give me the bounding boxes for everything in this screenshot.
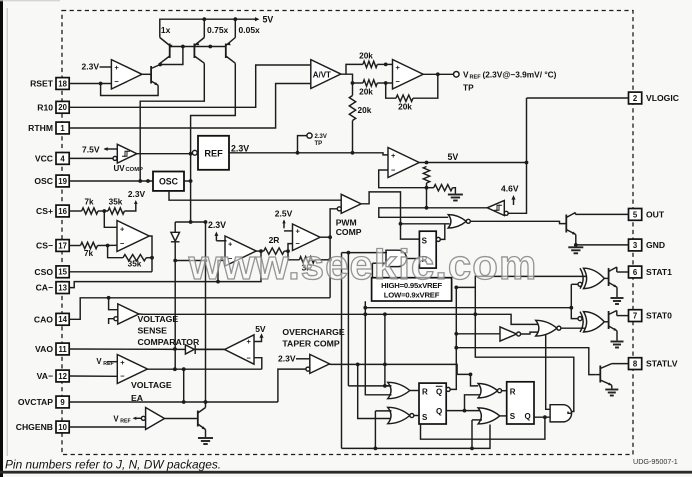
svg-text:+: +	[114, 63, 119, 72]
junction q rail	[463, 409, 467, 413]
wire 7k to node	[98, 210, 108, 212]
wire PWM minus	[330, 209, 337, 298]
resistor divider lower	[434, 185, 453, 191]
latch status 1	[419, 383, 450, 424]
gate XOR STAT1	[578, 268, 604, 288]
svg-text:R: R	[422, 388, 428, 397]
wire CAO rail	[69, 298, 330, 320]
wire EA to OVCTAP	[183, 369, 185, 402]
svg-text:VOLTAGE: VOLTAGE	[138, 314, 179, 324]
junction Q4 collector node	[158, 63, 162, 67]
wire VAO pin	[69, 348, 185, 350]
svg-text:20k: 20k	[359, 87, 373, 97]
wire mirror base rail	[170, 46, 226, 48]
svg-text:−: −	[391, 165, 396, 174]
wire AND in2 riser	[371, 263, 373, 278]
svg-text:7: 7	[633, 312, 637, 321]
junction base rail 2	[208, 45, 212, 49]
svg-text:5V: 5V	[448, 152, 459, 162]
pin 6 STAT1	[629, 266, 673, 278]
gate AND status	[550, 405, 571, 422]
wire stat1 top rail	[475, 276, 587, 287]
label 5V window	[255, 324, 266, 334]
junction EA-OVCTAP riser	[182, 367, 186, 371]
wire VLOGIC	[527, 97, 629, 99]
svg-text:COMP: COMP	[126, 167, 144, 173]
pin 3 GND	[629, 239, 666, 251]
junction base rail	[181, 45, 185, 49]
junction divider node	[425, 186, 429, 190]
wire CS- to amp	[98, 244, 118, 246]
label 0.75x	[207, 25, 229, 35]
wire vs riser to or1	[365, 301, 391, 395]
wire RSET to U1-	[69, 83, 111, 85]
svg-text:17: 17	[58, 241, 67, 250]
wire res node	[426, 183, 428, 208]
resistor 7k CS-	[81, 242, 98, 258]
wire top 20k to amp+	[377, 63, 392, 65]
wire Qbar riser	[449, 287, 574, 411]
wire inverter input	[456, 333, 500, 335]
IC boundary (dashed)	[62, 11, 633, 455]
svg-text:S: S	[422, 413, 428, 422]
junction CS- node	[106, 244, 110, 248]
wire to gnd	[453, 188, 456, 194]
junction EA out tap	[173, 367, 177, 371]
svg-text:RSET: RSET	[30, 79, 54, 89]
transistor Q9 STATLV	[595, 364, 628, 389]
wire NOR out to Q6 base	[470, 221, 566, 223]
junction 2R node	[286, 249, 290, 253]
wire OSC block output	[184, 180, 191, 182]
junction buffer out	[328, 235, 332, 239]
label 2.3V CA	[208, 220, 226, 230]
wire node down to 3R	[288, 251, 299, 260]
junction Q5 collector	[204, 400, 208, 404]
svg-text:2.5V: 2.5V	[275, 209, 293, 219]
diode D2 VAO	[185, 345, 195, 354]
svg-text:2.3V: 2.3V	[82, 62, 100, 72]
wire or1 top in	[348, 385, 391, 387]
resistor 20k feedback	[396, 95, 413, 111]
svg-text:20k: 20k	[359, 50, 373, 60]
svg-text:3: 3	[633, 241, 638, 250]
junction VAO diode anode	[173, 347, 177, 351]
junction CAO comp tap	[107, 296, 111, 300]
svg-text:6: 6	[633, 268, 638, 277]
junction riser statlv	[454, 346, 458, 350]
wire OSC pin line	[69, 180, 153, 182]
resistor 20k lower	[359, 80, 377, 97]
comparator VOLTAGE SENSE	[114, 304, 139, 324]
svg-text:GND: GND	[646, 240, 665, 250]
svg-text:OUT: OUT	[646, 210, 665, 220]
wire clamp left lower	[174, 242, 176, 261]
svg-text:2.3V: 2.3V	[231, 143, 249, 153]
wire or latch2 bottom in	[472, 419, 482, 421]
junction CS+ node	[102, 209, 106, 213]
wire stat cross rail	[365, 307, 571, 309]
svg-text:V: V	[463, 70, 469, 80]
label 2.3V U1	[82, 62, 100, 72]
svg-text:2.3V: 2.3V	[278, 354, 296, 364]
wire taper - to OVCTAP	[278, 369, 306, 402]
svg-text:−: −	[120, 372, 125, 381]
svg-text:20k: 20k	[398, 101, 412, 111]
svg-text:5: 5	[633, 210, 638, 219]
wire CS+ node to amp	[104, 211, 117, 227]
junction x475 vs	[473, 312, 477, 316]
wire 5V out	[419, 162, 526, 164]
wire stat1 xor lower	[571, 283, 578, 285]
gate XOR STAT0	[578, 312, 604, 332]
svg-text:−: −	[247, 353, 252, 362]
svg-text:7k: 7k	[84, 249, 94, 258]
ground STATLV	[605, 390, 618, 396]
junction OSC left2	[146, 179, 150, 183]
ground STAT1	[611, 298, 624, 304]
svg-text:VAO: VAO	[35, 344, 53, 354]
svg-text:CS−: CS−	[36, 241, 53, 251]
inverter status	[500, 327, 521, 341]
wire or1 out	[410, 390, 419, 392]
transistor Q7 STAT1	[604, 267, 628, 297]
wire VREF feedback	[413, 74, 438, 98]
svg-text:CAO: CAO	[34, 314, 53, 324]
arrow 2.3V CS	[128, 189, 146, 204]
svg-text:Q: Q	[525, 412, 531, 421]
wire 2.3V CA to +	[216, 240, 226, 242]
wire CS- lead	[69, 245, 80, 247]
wire lower 20k to amp-	[377, 82, 392, 84]
arrow 5V window	[259, 333, 263, 338]
wire EA out rail	[147, 368, 261, 370]
svg-text:7k: 7k	[84, 198, 94, 207]
block window thresholds	[372, 278, 452, 301]
junction or1 riser	[383, 384, 387, 388]
svg-text:+: +	[396, 63, 401, 72]
svg-text:10: 10	[58, 423, 67, 432]
wire vs minus stub	[109, 319, 114, 324]
wire CA out lead	[256, 250, 264, 252]
wire A/VT out branches	[341, 74, 353, 95]
comparator UVCOMP	[113, 144, 137, 163]
junction CA- rail	[216, 280, 220, 284]
pin 12 VA&#8722;	[37, 370, 70, 382]
svg-text:2.3V: 2.3V	[128, 189, 146, 199]
svg-text:CA−: CA−	[36, 283, 53, 293]
pin 1 RTHM	[28, 122, 69, 134]
wire R10 to A/VT	[69, 65, 311, 107]
wire A/VT to top 20k	[346, 64, 363, 74]
wire or latch2 bottom riser	[471, 420, 473, 449]
resistor 20k vertical	[349, 96, 371, 121]
svg-text:www.seekic.com: www.seekic.com	[188, 241, 538, 288]
svg-text:−: −	[114, 77, 119, 86]
pin 11 VAO	[35, 343, 69, 355]
wire 2.3V TP stub	[298, 136, 307, 153]
junction bus top	[204, 220, 208, 224]
latch PWM S-R	[419, 231, 440, 268]
svg-text:OVERCHARGE: OVERCHARGE	[282, 327, 344, 337]
wire CAO to comparator	[109, 298, 118, 310]
svg-text:2: 2	[633, 94, 638, 103]
wire CHGENB pin	[69, 426, 145, 428]
arrow VREF chg	[133, 417, 137, 420]
label VOLTAGE EA	[131, 380, 172, 403]
wire statlv base rail	[456, 348, 595, 375]
wire 7.5V arrow	[105, 148, 118, 150]
wire bottom rail B	[342, 425, 491, 449]
svg-text:STATLV: STATLV	[646, 359, 678, 369]
svg-text:35k: 35k	[128, 259, 142, 268]
comparator OVERCHARGE TAPER	[306, 354, 330, 373]
op-amp U2 VREF buffer	[393, 60, 424, 90]
svg-text:+: +	[120, 358, 125, 367]
wire fb to -	[386, 83, 396, 98]
junction OVCTAP EA	[182, 400, 186, 404]
junction UVCOMP-REF node	[189, 152, 193, 156]
wire latch2 q to and	[534, 416, 550, 418]
test point 2.3V TP	[307, 133, 327, 147]
svg-text:STAT1: STAT1	[646, 267, 672, 277]
svg-text:8: 8	[633, 360, 638, 369]
svg-text:REF: REF	[470, 75, 482, 81]
svg-text:−: −	[396, 77, 401, 86]
junction 3R tap	[328, 258, 332, 262]
wire OVCTAP pin rail	[69, 401, 278, 403]
pin 5 OUT	[629, 209, 665, 221]
junction riser inv	[454, 332, 458, 336]
wire and out	[568, 412, 572, 414]
svg-text:19: 19	[58, 177, 67, 186]
wire q to nor top	[465, 395, 483, 411]
5V supply arrow	[255, 15, 273, 25]
svg-text:11: 11	[58, 345, 67, 354]
svg-text:VA−: VA−	[37, 371, 53, 381]
wire PWM out to latch S	[361, 192, 419, 239]
svg-text:5V: 5V	[263, 15, 274, 25]
junction cross rail right	[569, 306, 573, 310]
ground output stage	[568, 247, 583, 253]
junction 2.3V TP tap	[296, 151, 300, 155]
gate AND R driver	[386, 250, 406, 266]
svg-text:TAPER COMP: TAPER COMP	[282, 338, 339, 348]
pin 20 R10	[37, 101, 69, 113]
wire VCC to UVCOMP	[69, 157, 113, 159]
svg-text:9: 9	[60, 398, 65, 407]
pin 14 CAO	[34, 313, 69, 325]
label 2.3V REF out	[231, 143, 249, 153]
svg-text:+: +	[391, 151, 396, 160]
svg-text:0.05x: 0.05x	[239, 25, 261, 35]
wire UVCOMP output	[137, 153, 191, 155]
junction riser348 top	[347, 251, 351, 255]
svg-text:CSO: CSO	[34, 267, 53, 277]
svg-text:VLOGIC: VLOGIC	[646, 93, 679, 103]
svg-text:5V: 5V	[255, 324, 266, 334]
svg-text:V: V	[113, 414, 119, 423]
wire 20k vert to 2.3V	[352, 121, 354, 153]
label UVCOMP	[114, 164, 144, 173]
svg-text:CHGENB: CHGENB	[16, 422, 53, 432]
svg-text:4: 4	[60, 154, 65, 163]
wire GND pin	[576, 244, 629, 246]
label VREF CHGENB	[113, 414, 130, 424]
junction taper rail NOR2	[356, 363, 360, 367]
junction taper rail OR1	[383, 363, 387, 367]
wire vs step to NOR	[475, 314, 539, 324]
op-amp U4 ramp buffer	[293, 224, 321, 251]
wire AND in2	[372, 262, 387, 264]
junction clamp bottom	[173, 259, 177, 263]
svg-text:SENSE: SENSE	[138, 326, 168, 336]
svg-text:S: S	[510, 412, 516, 421]
junction VREF amp - input	[384, 81, 388, 85]
test point VREF	[454, 72, 460, 78]
wire taper to NOR2	[358, 364, 392, 418]
svg-text:+: +	[247, 337, 252, 346]
junction VREF amp + input	[384, 63, 388, 67]
wire logic bus x341	[341, 253, 343, 449]
label 2.3V taper	[278, 354, 296, 364]
svg-text:R10: R10	[37, 102, 53, 112]
junction nor2 bottom rail	[374, 447, 378, 451]
junction 5V vlogic	[525, 161, 529, 165]
wire clamp top	[175, 221, 205, 223]
wire VREF output	[423, 73, 453, 75]
svg-text:VOLTAGE: VOLTAGE	[131, 380, 172, 390]
scan left border bar	[0, 0, 60, 477]
wire clamp out	[379, 208, 487, 218]
junction vs riser	[363, 312, 367, 316]
gate NOR latch2 R	[478, 384, 501, 398]
wire Q2 collector to OSC node	[140, 63, 204, 181]
arrow 4.6V supply	[511, 195, 515, 205]
junction bottom rail 2	[470, 447, 474, 451]
resistor 20k top	[359, 50, 377, 67]
pin 16 CS+	[36, 205, 69, 217]
svg-text:13: 13	[58, 284, 67, 293]
junction 2.3V 20k tap	[351, 151, 355, 155]
wire CA minus stub	[218, 260, 225, 281]
wire nor2 top in	[375, 410, 391, 412]
wire AND in1	[342, 252, 388, 254]
wire CS fb to out	[146, 257, 152, 259]
bottom rule	[0, 471, 692, 474]
wire CS+ lead	[69, 210, 82, 212]
pin 8 STATLV	[629, 358, 678, 370]
junction CS out node	[150, 256, 154, 260]
wire buffer to Q5	[165, 418, 198, 420]
svg-text:15: 15	[58, 268, 67, 277]
wire 3R runout	[315, 259, 331, 261]
svg-text:CS+: CS+	[36, 206, 53, 216]
label VREF spec	[463, 70, 557, 93]
wire 2.3V to U1+	[100, 66, 112, 68]
wire divider lead	[427, 187, 434, 189]
svg-text:1x: 1x	[161, 25, 171, 35]
junction 5V fb	[425, 161, 429, 165]
svg-text:OSC: OSC	[159, 177, 179, 187]
junction RSET feedback	[99, 82, 103, 86]
resistor 2R	[264, 235, 284, 254]
resistor divider vertical	[423, 167, 429, 184]
svg-text:R: R	[510, 388, 516, 397]
svg-text:Q: Q	[436, 407, 442, 416]
label PWM COMP	[336, 218, 362, 237]
pin 9 OVCTAP	[18, 396, 69, 408]
wire buffer minus fb	[288, 244, 293, 252]
arrow 2.3V CA supply	[214, 232, 218, 241]
svg-text:OSC: OSC	[34, 176, 53, 186]
transistor Q1 1x mirror	[160, 38, 173, 65]
wire clamp to VAO node	[174, 261, 176, 370]
wire 2R to node	[284, 250, 288, 252]
gate NOR output driver	[448, 215, 470, 228]
svg-text:7.5V: 7.5V	[82, 144, 100, 154]
wire to lower 20k	[353, 82, 363, 84]
junction and branch	[543, 415, 547, 419]
pin 2 VLOGIC	[629, 92, 679, 104]
wire nor2 top riser	[374, 411, 376, 449]
svg-text:20k: 20k	[358, 105, 372, 115]
junction OSC charge node	[138, 179, 142, 183]
wire latch Qbar to NOR	[440, 224, 445, 240]
block REF	[192, 136, 229, 170]
op-amp CS current sense amp	[117, 221, 149, 252]
wire VREF chg arrow lead	[135, 417, 141, 419]
resistor 35k CS+	[108, 198, 124, 215]
svg-text:20: 20	[58, 103, 67, 112]
pin 18 RSET	[30, 78, 69, 90]
wire long vertical bus	[205, 222, 207, 402]
pin 15 CSO	[34, 266, 69, 278]
junction cross rail left	[363, 306, 367, 310]
svg-text:1: 1	[60, 124, 65, 133]
pin 10 CHGENB	[16, 421, 69, 433]
svg-text:18: 18	[58, 79, 67, 88]
transistor Q5 CHGENB pulldown	[198, 402, 206, 437]
junction CA out	[259, 249, 263, 253]
svg-text:2.3V: 2.3V	[208, 220, 226, 230]
ground STAT0	[611, 342, 624, 348]
gate OR latch1 R	[388, 382, 410, 398]
label VREF EA	[96, 357, 113, 367]
svg-text:OVCTAP: OVCTAP	[18, 397, 53, 407]
wire riser x348	[347, 253, 349, 386]
wire nor2 out	[414, 415, 419, 417]
latch status 2	[507, 382, 534, 424]
svg-text:TP: TP	[463, 82, 474, 92]
svg-text:2.3V: 2.3V	[315, 134, 327, 140]
op-amp U1 RSET amplifier	[111, 60, 142, 89]
svg-text:+: +	[120, 224, 125, 233]
svg-text:16: 16	[58, 207, 67, 216]
wire Q4 emitter feedback	[101, 84, 159, 96]
ground divider	[448, 195, 463, 201]
junction clamp top	[189, 220, 193, 224]
junction GND emitter	[574, 243, 578, 247]
wire CSO pin	[69, 271, 152, 273]
wire taper out rail	[330, 364, 479, 386]
op-amp A/VT	[311, 60, 341, 89]
svg-text:4.6V: 4.6V	[501, 183, 519, 193]
label 5V reg	[448, 152, 459, 162]
junction bus clamp	[204, 259, 208, 263]
arrow 7.5V	[82, 144, 108, 154]
junction rail Q2	[202, 17, 206, 21]
